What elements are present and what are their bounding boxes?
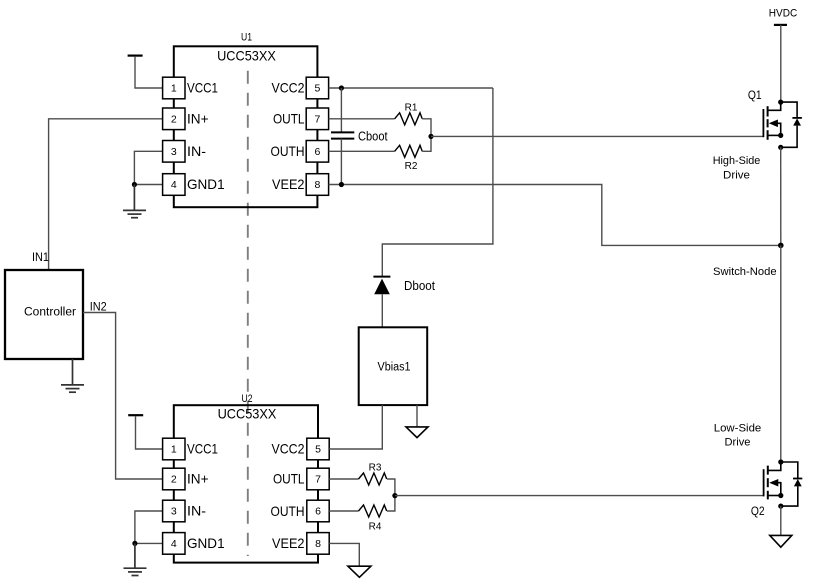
svg-text:VCC1: VCC1 [187,80,218,96]
wire Vbias1 to U2 VCC2 [329,405,382,449]
pin 5 U2 [307,438,329,460]
svg-text:7: 7 [314,114,320,126]
wire U2 IN- to ground [135,511,163,543]
power ground Q2 [770,535,792,547]
svg-text:2: 2 [171,474,177,486]
svg-text:VEE2: VEE2 [272,176,305,192]
svg-text:IN2: IN2 [90,299,107,313]
svg-text:IN-: IN- [187,503,206,519]
resistor R3 [359,473,387,485]
svg-text:6: 6 [315,506,321,518]
voltage source Vbias1 box [359,327,428,405]
svg-text:Drive: Drive [723,170,750,182]
svg-text:R1: R1 [405,101,418,113]
svg-text:OUTL: OUTL [273,471,305,487]
node Low-Side Drive label [714,423,762,449]
svg-text:GND1: GND1 [187,535,225,551]
svg-text:Low-Side: Low-Side [714,423,762,435]
svg-text:7: 7 [315,474,321,486]
wire Cboot lower lead [340,139,342,185]
pin 6 U1 [306,141,328,163]
wire IN2 from controller to U2 pin2 [83,313,163,480]
svg-text:6: 6 [314,146,320,158]
wire U2 OUTH lead [329,510,358,512]
pin 2 U2 [163,468,185,490]
svg-text:HVDC: HVDC [769,8,798,20]
wire U1 OUTL lead [329,118,395,120]
wire U1 IN- to ground [134,151,162,184]
svg-text:2: 2 [171,114,177,126]
svg-text:Controller: Controller [24,306,76,318]
svg-text:Cboot: Cboot [358,129,388,143]
wire U1 VEE2 to switch node [329,185,781,246]
wire U2 VEE2 to power ground [329,543,359,566]
IC U2 UCC53XX gate driver body [174,405,318,562]
svg-text:Q2: Q2 [751,506,765,518]
wire Dboot anode to Vbias1 [381,294,383,327]
node U2 ground junction [132,541,137,546]
pin 3 U1 [163,141,185,163]
wire U1 GND1 link [134,184,162,186]
svg-text:IN+: IN+ [187,471,209,487]
isolation barrier dashed line [247,71,249,556]
svg-text:OUTL: OUTL [273,110,305,126]
pin 7 U2 [307,468,329,490]
svg-text:IN1: IN1 [32,250,49,264]
node High-Side Drive label [713,155,761,181]
wire switch node to Q2 drain [780,245,782,462]
transistor Q1 [763,100,802,150]
svg-text:8: 8 [315,538,321,550]
wire Q1 source to switch node [780,147,782,245]
wire IN1 from controller to U1 pin2 [49,119,163,270]
svg-text:U1: U1 [241,31,252,43]
wire VCC1 supply tee U1 [128,56,163,88]
wire U2 OUTL lead [329,478,358,480]
pin 7 U1 [306,108,328,130]
IC U1 UCC53XX gate driver body [174,46,318,207]
svg-text:VCC2: VCC2 [272,441,305,457]
wire U1 VCC2 rail [329,87,493,89]
HVDC supply tee [774,24,787,26]
power ground Vbias1 [406,427,428,438]
wire VCC1 supply tee U2 [128,415,162,449]
svg-text:3: 3 [171,146,177,158]
wire HVDC to Q1 drain [780,25,782,102]
wire R4 to gate junction [387,496,395,511]
wire U2 GND1 link [135,542,163,544]
transistor Q2 [764,459,803,508]
pin 4 U1 [163,174,185,196]
pin 2 U1 [163,108,185,130]
svg-text:1: 1 [171,83,177,95]
svg-text:4: 4 [171,179,177,191]
controller box [5,270,83,359]
svg-text:R2: R2 [405,160,418,172]
resistor R4 [359,505,387,517]
wire gate drive to Q2 [395,495,764,497]
svg-text:OUTH: OUTH [271,503,305,519]
svg-text:VEE2: VEE2 [272,535,305,551]
svg-text:IN-: IN- [187,143,206,159]
svg-text:OUTH: OUTH [271,143,305,159]
wire Cboot upper lead [340,88,342,132]
svg-text:8: 8 [314,179,320,191]
resistor R2 [395,145,423,157]
wire R3 to gate junction [387,479,395,496]
svg-text:Drive: Drive [725,436,751,448]
wire VCC2 to Dboot cathode [382,88,493,277]
ground U1 [123,185,146,218]
svg-text:VCC2: VCC2 [272,80,305,96]
power ground U2 VEE2 [348,566,371,577]
svg-text:R4: R4 [369,521,382,533]
capacitor Cboot [331,132,354,138]
svg-text:Q1: Q1 [748,90,762,102]
pin 8 U1 [306,174,328,196]
node U1 ground junction [132,182,137,187]
svg-text:Vbias1: Vbias1 [378,362,411,374]
svg-text:4: 4 [171,538,177,550]
node gate drive junction Q2 [392,493,397,498]
svg-text:3: 3 [171,506,177,518]
node VCC2 junction [339,85,344,90]
wire Vbias1 to power ground [416,405,418,427]
diode Dboot [373,277,390,295]
svg-text:GND1: GND1 [187,176,225,192]
pin 5 U1 [306,77,328,99]
svg-text:U2: U2 [242,393,253,405]
wire Q2 source to power ground [780,506,782,535]
svg-text:5: 5 [315,444,321,456]
wire U1 OUTH lead [329,150,395,152]
svg-text:UCC53XX: UCC53XX [217,48,276,64]
pin 1 U1 [163,77,185,99]
pin 8 U2 [307,533,329,555]
svg-text:IN+: IN+ [187,110,209,126]
svg-text:VCC1: VCC1 [187,441,218,457]
svg-text:UCC53XX: UCC53XX [218,405,277,421]
pin 4 U2 [163,533,185,555]
svg-text:Switch-Node: Switch-Node [713,266,777,278]
pin 6 U2 [307,500,329,522]
node VEE2 junction [339,182,344,187]
pin 1 U2 [163,438,185,460]
node switch node junction [778,243,784,249]
resistor R1 [395,113,423,125]
wire R2 to gate junction [422,136,431,151]
node gate drive junction Q1 [428,134,433,139]
svg-text:Dboot: Dboot [404,279,435,293]
wire R1 to gate junction [422,119,431,137]
svg-text:R3: R3 [369,461,382,473]
wire gate drive to Q1 [431,135,763,137]
ground U2 [124,543,147,575]
pin 3 U2 [163,500,185,522]
ground controller [61,359,84,392]
svg-text:5: 5 [314,83,320,95]
svg-text:1: 1 [171,444,177,456]
svg-text:High-Side: High-Side [713,155,761,167]
